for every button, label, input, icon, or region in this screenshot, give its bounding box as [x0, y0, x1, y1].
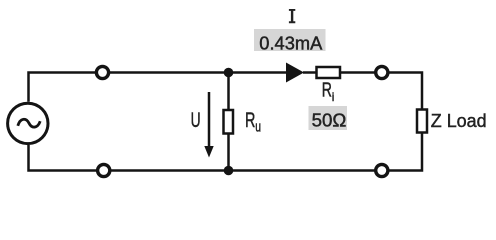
bottom wire terminal to junction to left terminal — [111, 169, 375, 172]
svg-text:u: u — [255, 119, 261, 135]
label I (serif capital drawn as path) — [289, 9, 295, 23]
wire from arrow tip to resistor Ri — [303, 71, 317, 74]
svg-text:R: R — [245, 109, 255, 132]
AC sine symbol — [18, 119, 40, 127]
wire from Z load down to bottom right corner and to bottom terminal — [389, 133, 422, 171]
label box 50 ohm highlight — [309, 106, 348, 130]
wire from resistor Ri to right terminal — [340, 71, 375, 74]
svg-text:i: i — [332, 90, 335, 104]
wire Ru vertical lower — [227, 134, 230, 171]
AC source V1 — [8, 103, 48, 143]
wire top from left corner to junction — [29, 73, 96, 102]
svg-text:50Ω: 50Ω — [312, 109, 347, 130]
junction node top — [224, 68, 234, 78]
terminal top-left — [96, 66, 108, 78]
current direction arrow I — [286, 63, 304, 83]
svg-text:Z Load: Z Load — [431, 110, 487, 131]
bottom wire from left terminal to bottom-left corner and up to source — [29, 145, 97, 171]
terminal bottom-left — [98, 164, 110, 176]
resistor Ru — [224, 110, 234, 134]
terminal top-right — [376, 66, 388, 78]
wire from right terminal to Z load — [389, 73, 422, 110]
junction node bottom — [224, 166, 234, 176]
resistor Z load — [417, 110, 427, 133]
svg-text:R: R — [322, 79, 332, 101]
svg-text:0.43mA: 0.43mA — [259, 33, 323, 54]
label box 0.43mA highlight — [254, 29, 326, 51]
voltage arrow U — [208, 92, 211, 148]
wire top from terminal to junction node — [110, 71, 287, 74]
resistor Ri — [317, 67, 341, 78]
svg-text:U: U — [191, 109, 201, 132]
wire Ru vertical upper — [227, 73, 230, 111]
terminal bottom-right — [376, 164, 388, 176]
